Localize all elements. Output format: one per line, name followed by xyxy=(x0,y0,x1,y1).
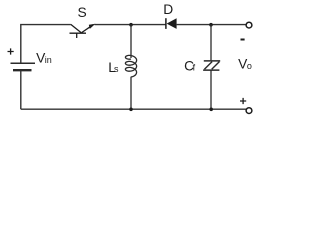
diode D (cathode left, anode right) xyxy=(166,18,177,29)
output terminal top (negative) xyxy=(246,22,252,28)
label Ls xyxy=(108,60,119,75)
junction bottom of Cf xyxy=(209,108,213,112)
label Vin xyxy=(36,51,52,66)
svg-text:o: o xyxy=(247,61,252,71)
minus polarity mark at top output xyxy=(241,39,245,41)
label Cf xyxy=(184,58,196,73)
junction node B (top of Cf) xyxy=(209,23,213,27)
label S xyxy=(78,5,87,20)
svg-text:in: in xyxy=(45,55,52,65)
voltage source Vin (battery) xyxy=(11,63,36,70)
capacitor Cf xyxy=(203,25,220,110)
wire switch to node A xyxy=(95,24,166,26)
plus polarity mark of Vin xyxy=(8,48,14,54)
wire diode to output terminal (node B) xyxy=(177,24,246,26)
transistor switch S xyxy=(70,24,96,38)
junction bottom of Ls xyxy=(129,108,133,112)
plus polarity mark at bottom output xyxy=(240,98,246,104)
label Vo xyxy=(238,57,252,72)
wire bottom rail xyxy=(21,108,246,110)
label D xyxy=(163,2,173,17)
inductor Ls xyxy=(125,25,136,110)
svg-text:D: D xyxy=(163,2,173,17)
junction node A (top of Ls) xyxy=(129,23,133,27)
wire left-bottom (Vin- down to bottom rail) xyxy=(20,70,22,109)
output terminal bottom (positive) xyxy=(246,108,252,114)
wire top-left (Vin+ to switch S) xyxy=(21,25,71,63)
svg-text:S: S xyxy=(78,5,87,20)
svg-text:s: s xyxy=(114,64,119,74)
